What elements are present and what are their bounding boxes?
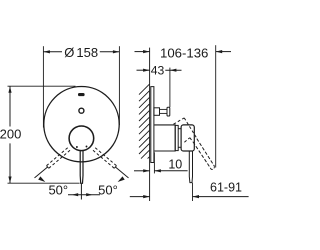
wall face line / extension line xyxy=(149,48,151,201)
svg-text:10: 10 xyxy=(168,157,182,171)
dashed lever right tip cap xyxy=(114,166,116,169)
extension line 61-91 left (lever tip) xyxy=(192,183,194,201)
bottom center line xyxy=(80,184,82,200)
wall hatching (side view) xyxy=(139,84,149,158)
dimension 10 xyxy=(134,170,150,172)
lever handle side view xyxy=(189,151,192,183)
diverter knob cap xyxy=(167,107,170,116)
svg-text:Ø: Ø xyxy=(64,45,74,60)
bottom reference arrows xyxy=(68,194,100,196)
dimension Ø158 line left xyxy=(43,51,62,53)
dimension 200 extension top xyxy=(8,85,76,87)
svg-text:50°: 50° xyxy=(48,183,68,198)
dashed handle tip cap xyxy=(211,166,214,169)
angle dimension line right xyxy=(115,167,128,178)
lever handle front view xyxy=(80,151,83,184)
dimension Ø158 extension line right xyxy=(118,46,120,125)
dimension Ø158 line right xyxy=(100,51,120,53)
neck between body and hub xyxy=(175,125,178,150)
temperature slot marking xyxy=(78,93,85,96)
diverter knob side view: base xyxy=(154,108,160,116)
svg-text:158: 158 xyxy=(76,45,98,60)
extension line 10 right (body front) xyxy=(153,152,155,173)
angle arrow right xyxy=(118,176,125,182)
dashed handle rotated (side view) xyxy=(174,118,215,170)
svg-text:200: 200 xyxy=(0,127,21,142)
diverter knob stem xyxy=(160,108,168,110)
svg-text:61-91: 61-91 xyxy=(210,180,242,194)
svg-text:50°: 50° xyxy=(98,183,118,198)
dashed lever left tip cap xyxy=(47,166,49,169)
valve body side view xyxy=(154,125,175,151)
dashed lever swung right 50° xyxy=(93,148,117,169)
hub indicator dot right xyxy=(86,146,88,148)
extension line 43 right (knob cap) xyxy=(169,68,171,107)
escutcheon plate front view (outer circle) xyxy=(44,87,119,162)
dimension 61-91 xyxy=(130,196,150,198)
angle arrow left xyxy=(38,176,45,182)
lever hub side view xyxy=(181,125,194,151)
lever hub front view xyxy=(69,126,94,151)
dimension 200 line xyxy=(9,86,11,126)
dimension Ø158 extension line left xyxy=(42,46,44,127)
hub indicator dot left xyxy=(76,146,78,148)
dimension 106-136 xyxy=(135,51,150,53)
dimension 200 extension bottom xyxy=(8,182,80,184)
extension line 106-136 right xyxy=(215,45,217,167)
diverter knob front view (small circle) xyxy=(79,108,84,113)
svg-text:43: 43 xyxy=(151,64,165,78)
angle dimension line left xyxy=(35,167,48,178)
svg-text:106-136: 106-136 xyxy=(160,45,208,60)
dashed lever swung left 50° xyxy=(47,148,71,169)
dimension 43 xyxy=(137,69,150,71)
escutcheon plate side view xyxy=(151,87,154,163)
